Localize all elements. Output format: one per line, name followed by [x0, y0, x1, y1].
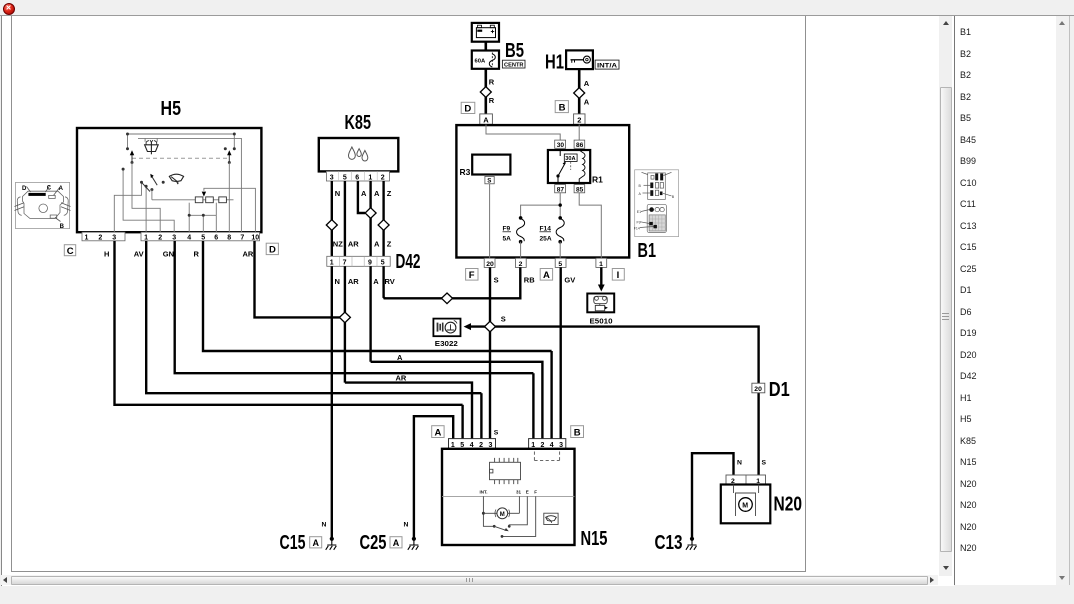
svg-text:5: 5 — [201, 235, 205, 242]
svg-text:R: R — [489, 78, 495, 87]
svg-text:5: 5 — [381, 260, 385, 267]
svg-text:A: A — [639, 192, 642, 196]
svg-text:S: S — [762, 460, 767, 467]
connector label B (N15) — [571, 426, 584, 439]
svg-text:GN: GN — [163, 250, 174, 259]
svg-text:30A: 30A — [565, 156, 575, 162]
svg-text:25A: 25A — [540, 236, 552, 243]
list items — [960, 27, 1020, 39]
bundle corners down to N15 — [550, 351, 552, 439]
svg-text:RV: RV — [385, 277, 395, 286]
svg-text:N: N — [335, 277, 340, 286]
motor M of N15 — [482, 496, 520, 526]
wiper motor assembly N15 — [442, 449, 575, 545]
connector label D (H5) — [266, 243, 278, 256]
svg-text:A: A — [373, 277, 379, 286]
rear window wiper icon — [544, 513, 558, 524]
svg-text:A: A — [361, 189, 367, 198]
svg-text:B: B — [574, 427, 581, 438]
svg-text:8: 8 — [227, 235, 231, 242]
svg-text:I: I — [617, 270, 620, 281]
fuse 60A (B5) — [472, 51, 499, 69]
svg-text:R3: R3 — [460, 167, 471, 177]
svg-text:5: 5 — [558, 261, 562, 268]
wire K85 pin5 — [344, 181, 346, 256]
svg-text:A: A — [374, 189, 380, 198]
pin S of R3 — [485, 176, 494, 184]
svg-text:A: A — [313, 538, 320, 548]
label INT/A — [595, 60, 619, 69]
svg-text:A: A — [543, 270, 550, 281]
svg-text:2: 2 — [519, 261, 523, 268]
park switch of N15 — [493, 496, 536, 537]
wire K85 pin3 N — [331, 181, 333, 256]
pin 85 — [574, 185, 585, 194]
svg-text:N15: N15 — [581, 528, 608, 550]
svg-text:N: N — [335, 189, 340, 198]
svg-text:E: E — [526, 490, 529, 495]
svg-text:N: N — [404, 522, 409, 529]
svg-text:S: S — [494, 430, 499, 437]
connector label C — [64, 245, 75, 257]
pin A of B1 — [480, 114, 493, 124]
svg-text:CENTR: CENTR — [504, 63, 524, 69]
svg-text:A: A — [435, 427, 442, 438]
connector label F — [466, 269, 478, 282]
pin 1 bottom — [596, 258, 607, 268]
wire K85 pin6 joins pin1 — [358, 181, 365, 213]
svg-text:5: 5 — [343, 175, 347, 182]
wire S horizontal to D1 — [471, 327, 759, 475]
fuse F9 5A — [503, 216, 525, 243]
wire battery to fuse — [484, 42, 487, 51]
wire GN drop — [532, 373, 534, 438]
connector label I — [612, 269, 624, 282]
pin 20 — [484, 258, 495, 268]
wire RV : D42 pin5 right to RB — [384, 266, 385, 298]
resistor R3 — [460, 155, 511, 177]
wire N20 pin2 to C13 ground — [692, 453, 734, 537]
svg-text:INT/A: INT/A — [597, 62, 617, 69]
svg-text:R: R — [489, 96, 495, 105]
svg-text:B: B — [672, 195, 675, 199]
wire GV : B1 pin5 down to N15 pin B3 — [560, 267, 562, 438]
up arrow left — [130, 150, 134, 164]
wire A horizontal — [371, 362, 543, 439]
svg-text:R: R — [194, 250, 200, 259]
svg-text:7: 7 — [240, 235, 244, 242]
svg-text:A: A — [584, 98, 590, 107]
splice diamond on A wire — [574, 88, 585, 99]
svg-text:A: A — [584, 79, 590, 88]
svg-text:B5: B5 — [505, 40, 524, 62]
svg-text:B1: B1 — [638, 240, 657, 262]
splice diamond NZ — [326, 220, 337, 231]
svg-text:86: 86 — [576, 142, 584, 149]
svg-text:GV: GV — [564, 276, 575, 285]
ground C25 — [408, 537, 419, 550]
wire D2 left loop to arrow left — [132, 163, 160, 233]
switch contacts — [140, 174, 165, 200]
svg-text:E5010: E5010 — [590, 319, 613, 326]
svg-text:N: N — [322, 522, 327, 529]
svg-text:A: A — [59, 186, 64, 192]
svg-text:4: 4 — [187, 235, 191, 242]
wire D8 up to arrow — [228, 163, 230, 233]
svg-text:3: 3 — [330, 175, 334, 182]
connector D42 — [327, 256, 390, 266]
wire R : H5 pinD5 down — [203, 241, 552, 351]
svg-text:F: F — [534, 490, 537, 495]
wires D4 D5 D6 joining — [189, 203, 216, 232]
wire pin A to relay pin 30 — [486, 125, 560, 141]
N15 pin bar A — [449, 439, 496, 450]
svg-text:D: D — [22, 186, 27, 192]
wire F9 to pin 2 — [520, 242, 522, 259]
svg-text:9: 9 — [368, 260, 372, 267]
splice diamond on R wire — [480, 87, 491, 98]
svg-text:Z: Z — [387, 239, 392, 248]
pin 30 — [555, 140, 566, 149]
svg-text:D42: D42 — [396, 251, 421, 273]
H5 pin bar C — [82, 232, 125, 241]
splice diamond AR — [339, 312, 350, 323]
wire K85 pin2 Z — [382, 181, 384, 256]
svg-text:60A: 60A — [475, 58, 486, 64]
wire F14 to pin 5 — [559, 242, 561, 259]
svg-text:AR: AR — [396, 374, 407, 383]
svg-text:M: M — [500, 512, 505, 518]
up arrow right — [227, 150, 231, 164]
svg-text:AR: AR — [348, 277, 359, 286]
svg-text:AV: AV — [134, 250, 144, 259]
washer jet icon — [145, 140, 159, 154]
svg-text:2: 2 — [158, 235, 162, 242]
dashed park line — [132, 157, 230, 159]
droplet icons — [349, 147, 368, 161]
svg-text:B: B — [60, 224, 65, 230]
splice diamond on pin1 wire — [365, 208, 376, 219]
svg-text:H: H — [104, 250, 109, 259]
splice diamond RV/RB — [442, 293, 453, 304]
washer pump E5010 — [587, 294, 614, 313]
svg-text:2: 2 — [577, 115, 581, 124]
wire AV drop — [480, 393, 482, 438]
svg-text:E3022: E3022 — [435, 341, 458, 348]
wire AR : D42 pin7 down — [344, 266, 346, 382]
svg-text:2: 2 — [98, 235, 102, 242]
svg-text:1: 1 — [599, 261, 603, 268]
pin 5 bottom — [555, 258, 566, 268]
svg-text:M: M — [742, 503, 748, 510]
H5 pin bar D — [141, 232, 260, 241]
svg-text:E1: E1 — [637, 210, 641, 214]
wire R3 S to pin 20 — [489, 184, 491, 258]
svg-text:F14: F14 — [634, 226, 640, 230]
wire H1 to B1 pin 2 — [578, 69, 581, 114]
svg-text:1: 1 — [144, 235, 148, 242]
svg-text:85: 85 — [576, 186, 584, 193]
svg-text:1: 1 — [85, 235, 89, 242]
wire D3 loop — [123, 169, 174, 232]
intermittent resistors — [152, 197, 234, 203]
headlamp washer E3022 — [433, 319, 460, 337]
svg-text:1: 1 — [368, 175, 372, 182]
wire 87 to fuses junction — [521, 193, 561, 218]
B1 fusebox inset detail — [634, 170, 679, 237]
splice diamond on S — [485, 321, 496, 332]
svg-text:H5: H5 — [161, 98, 182, 120]
pin 87 — [555, 185, 566, 194]
label CENTR — [502, 60, 525, 68]
svg-text:K85: K85 — [345, 112, 372, 134]
wire B5 to B1 pin A — [484, 69, 487, 114]
wire D1 up to switch — [145, 186, 147, 232]
svg-text:R1: R1 — [592, 175, 603, 185]
svg-text:A: A — [483, 115, 489, 124]
svg-text:87: 87 — [557, 186, 565, 193]
dashed link under B pins — [534, 452, 559, 461]
svg-text:A: A — [374, 239, 380, 248]
connector label D — [461, 102, 475, 114]
ground C13 — [686, 537, 697, 550]
wire S : B1 pin20 down to N15 pin A3 — [489, 267, 491, 438]
wire pin 2 to relay pin 86 — [578, 125, 580, 141]
wire A : D42 pin9 down — [369, 266, 371, 362]
rear washer pump N20 — [721, 475, 771, 523]
svg-text:AR: AR — [348, 239, 359, 248]
svg-text:6: 6 — [355, 175, 359, 182]
svg-text:5A: 5A — [503, 236, 512, 243]
svg-text:C15: C15 — [280, 532, 306, 554]
svg-text:1: 1 — [330, 260, 334, 267]
svg-text:B: B — [559, 103, 566, 114]
svg-text:RB: RB — [524, 276, 535, 285]
K85 pin bar — [326, 171, 389, 181]
svg-text:C: C — [47, 185, 52, 191]
svg-text:D: D — [464, 104, 471, 115]
svg-text:D1: D1 — [769, 379, 790, 401]
wire AR from H5 pin10 — [255, 241, 340, 317]
H5 internal top loop wire — [128, 134, 242, 232]
N15 pin bar B — [529, 439, 566, 450]
wire H : H5 pinC3 down — [115, 241, 463, 405]
svg-text:10: 10 — [251, 235, 259, 242]
wire D10 loop to resistor arrow — [204, 188, 256, 232]
battery B5 — [472, 23, 499, 42]
wire GN : H5 pinD3 down — [175, 241, 534, 373]
relay R1 — [548, 150, 603, 185]
wire to E5010 with arrow — [600, 267, 602, 285]
connector label B — [555, 101, 568, 114]
svg-text:D: D — [269, 245, 276, 256]
svg-text:S: S — [487, 178, 491, 185]
connector D1 pin 20 — [752, 383, 765, 393]
pin 2 of B1 — [574, 114, 585, 124]
svg-text:3: 3 — [112, 235, 116, 242]
svg-text:F: F — [469, 270, 475, 281]
ground C15 — [326, 537, 337, 550]
svg-text:N20: N20 — [774, 494, 803, 516]
svg-text:30: 30 — [557, 142, 565, 149]
svg-text:C: C — [67, 246, 74, 257]
svg-text:N: N — [737, 460, 742, 467]
wire AR horizontal to A4 — [345, 383, 472, 439]
svg-text:B: B — [639, 184, 642, 188]
splice diamond on Z wire — [378, 220, 389, 231]
wire 85 to pin 1 — [579, 193, 601, 258]
wire N : D42 pin1 to C15 ground — [331, 266, 333, 537]
svg-text:20: 20 — [754, 386, 762, 393]
pin 86 — [574, 140, 585, 149]
wire AV : H5 pinD1 down — [146, 241, 481, 393]
H5 aux connector inset — [15, 182, 71, 229]
divider line — [442, 495, 575, 497]
svg-text:31: 31 — [516, 490, 522, 495]
svg-text:NZ: NZ — [333, 239, 343, 248]
svg-text:C13: C13 — [655, 532, 683, 554]
control IC chip — [490, 458, 521, 484]
wire RB : B1 pin2 down, left to RV — [384, 267, 521, 298]
fusebox B1 — [456, 125, 629, 257]
svg-text:AR: AR — [243, 250, 254, 259]
svg-text:H1: H1 — [545, 52, 564, 74]
svg-text:C25: C25 — [360, 532, 387, 554]
svg-text:INT.: INT. — [480, 490, 488, 495]
svg-text:6: 6 — [214, 235, 218, 242]
svg-text:3: 3 — [172, 235, 176, 242]
svg-text:A: A — [393, 538, 400, 548]
pin 2 bottom — [515, 258, 526, 268]
svg-text:F9: F9 — [637, 221, 641, 225]
svg-text:Z: Z — [387, 189, 392, 198]
wire C3 up to switch — [114, 182, 141, 232]
svg-text:S: S — [494, 276, 499, 285]
connector label A (below B1) — [540, 269, 552, 282]
wire H drop — [461, 405, 463, 439]
svg-text:A: A — [397, 353, 403, 362]
wire K85 pin1 — [369, 181, 371, 256]
svg-text:S: S — [501, 315, 506, 324]
svg-text:7: 7 — [343, 260, 347, 267]
connector label A (N15) — [432, 426, 444, 439]
svg-text:20: 20 — [486, 261, 494, 268]
wire C25 ground to N15 A1 — [414, 416, 453, 537]
fuse F14 25A — [540, 216, 565, 243]
wiper icon — [169, 174, 183, 184]
svg-text:2: 2 — [381, 175, 385, 182]
